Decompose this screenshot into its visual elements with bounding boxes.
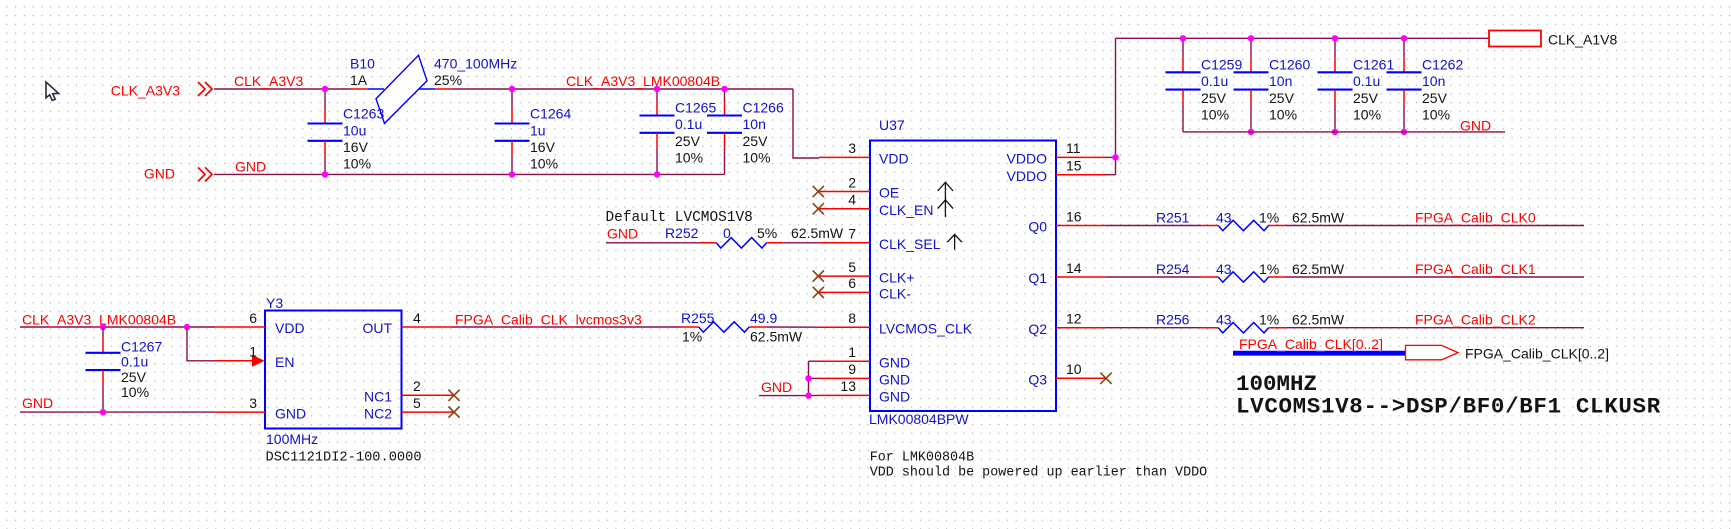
- svg-text:Y3: Y3: [266, 295, 283, 311]
- svg-text:4: 4: [848, 192, 856, 208]
- svg-text:0.1u: 0.1u: [121, 354, 148, 370]
- wire GND rail top-right: [1183, 131, 1505, 133]
- svg-text:GND: GND: [144, 166, 175, 182]
- svg-text:10u: 10u: [343, 122, 366, 138]
- svg-text:7: 7: [848, 226, 856, 242]
- mouse cursor: [46, 82, 59, 101]
- junction bottom rail: [1332, 129, 1338, 135]
- svg-text:10%: 10%: [121, 384, 149, 400]
- svg-text:25%: 25%: [434, 72, 462, 88]
- svg-text:CLK-: CLK-: [879, 286, 911, 302]
- power port CLK_A1V8: [1489, 31, 1541, 47]
- svg-text:FPGA_Calib_CLK0: FPGA_Calib_CLK0: [1415, 210, 1536, 226]
- svg-text:13: 13: [840, 378, 856, 394]
- op-amp U37 box: [870, 141, 1056, 412]
- wire FPGA_Calib_CLK1: [1286, 276, 1584, 278]
- wire R252 to pin7: [784, 242, 819, 244]
- svg-text:5: 5: [413, 395, 421, 411]
- svg-text:CLK_A3V3_LMK00804B: CLK_A3V3_LMK00804B: [566, 73, 720, 89]
- svg-text:Q1: Q1: [1028, 270, 1047, 286]
- no-connect X pin 4: [813, 203, 824, 214]
- svg-text:6: 6: [249, 310, 257, 326]
- U37 pin 13 stub: [819, 394, 870, 396]
- svg-text:3: 3: [848, 140, 856, 156]
- svg-text:C1264: C1264: [530, 106, 571, 122]
- capacitor C1262: [1403, 38, 1405, 57]
- capacitor C1263: [324, 89, 326, 109]
- svg-text:CLK+: CLK+: [879, 269, 914, 285]
- svg-text:25V: 25V: [121, 369, 147, 385]
- wire pin1 bend: [809, 360, 820, 362]
- svg-text:25V: 25V: [675, 133, 701, 149]
- svg-text:CLK_A3V3_LMK00804B: CLK_A3V3_LMK00804B: [22, 311, 176, 327]
- junction C1261 top: [1332, 35, 1338, 41]
- junction C1267 top: [100, 324, 106, 330]
- svg-text:CLK_SEL: CLK_SEL: [879, 236, 941, 252]
- svg-text:9: 9: [848, 361, 856, 377]
- capacitor C1266: [724, 89, 726, 101]
- svg-text:10n: 10n: [1269, 73, 1292, 89]
- svg-text:GND: GND: [1460, 118, 1491, 134]
- svg-text:62.5mW: 62.5mW: [791, 225, 844, 241]
- svg-text:0.1u: 0.1u: [675, 116, 702, 132]
- svg-text:FPGA_Calib_CLK2: FPGA_Calib_CLK2: [1415, 312, 1536, 328]
- U37 pin 4 stub: [819, 208, 870, 210]
- svg-text:CLK_A1V8: CLK_A1V8: [1548, 32, 1617, 48]
- svg-text:C1267: C1267: [121, 338, 162, 354]
- capacitor C1259: [1182, 38, 1184, 57]
- svg-text:43: 43: [1216, 261, 1232, 277]
- wire CLK_A1V8 top rail: [1116, 37, 1490, 39]
- svg-text:470_100MHz: 470_100MHz: [434, 56, 517, 72]
- svg-text:C1263: C1263: [343, 106, 384, 122]
- svg-text:R251: R251: [1156, 210, 1190, 226]
- resistor R256: [1201, 327, 1218, 329]
- wire VDDO vertical: [1115, 38, 1117, 174]
- wire CLK_A3V3 bead to corner: [453, 88, 794, 90]
- wire R255 to pin8: [766, 326, 819, 328]
- svg-text:16: 16: [1066, 208, 1082, 224]
- svg-text:1%: 1%: [682, 328, 702, 344]
- capacitor C1261: [1334, 38, 1336, 57]
- svg-text:GND: GND: [22, 395, 53, 411]
- svg-text:CLK_A3V3: CLK_A3V3: [234, 73, 303, 89]
- svg-text:GND: GND: [879, 389, 910, 405]
- svg-text:25V: 25V: [1422, 90, 1448, 106]
- U37 pin 16 stub: [1056, 225, 1106, 227]
- svg-text:5%: 5%: [757, 225, 777, 241]
- svg-text:C1266: C1266: [743, 99, 784, 115]
- U37 pin 10 stub: [1056, 377, 1106, 379]
- svg-text:15: 15: [1066, 158, 1082, 174]
- svg-text:OE: OE: [879, 185, 899, 201]
- svg-text:FPGA_Calib_CLK[0..2]: FPGA_Calib_CLK[0..2]: [1239, 336, 1383, 352]
- wire GND bottom-left: [20, 411, 215, 413]
- svg-text:FPGA_Calib_CLK_lvcmos3v3: FPGA_Calib_CLK_lvcmos3v3: [455, 311, 642, 327]
- U37 pin 12 stub: [1056, 327, 1106, 329]
- svg-text:C1260: C1260: [1269, 56, 1310, 72]
- svg-text:NC1: NC1: [364, 389, 392, 405]
- junction C1259 top: [1180, 35, 1186, 41]
- svg-text:10%: 10%: [1422, 107, 1450, 123]
- wire pin9 bend: [809, 377, 820, 379]
- svg-text:25V: 25V: [1269, 90, 1295, 106]
- svg-text:C1259: C1259: [1201, 56, 1242, 72]
- capacitor C1260: [1250, 38, 1252, 57]
- Y3 pin 4 stub: [402, 326, 452, 328]
- svg-text:10%: 10%: [675, 150, 703, 166]
- svg-text:1%: 1%: [1259, 312, 1279, 328]
- wire CLK_A3V3_LMK00804B left: [20, 326, 215, 328]
- resistor R251: [1201, 225, 1218, 227]
- capacitor C1267: [102, 327, 104, 338]
- no-connect X pin 6: [813, 287, 824, 298]
- U37 pin 15 stub: [1056, 174, 1106, 176]
- svg-text:GND: GND: [761, 379, 792, 395]
- U37 pin 2 stub: [819, 191, 870, 193]
- svg-text:14: 14: [1066, 260, 1082, 276]
- svg-text:Default LVCMOS1V8: Default LVCMOS1V8: [606, 210, 753, 226]
- port GND: [198, 167, 212, 181]
- svg-text:B10: B10: [350, 56, 375, 72]
- svg-text:2: 2: [413, 378, 421, 394]
- Y3 pin 5 stub: [402, 411, 455, 413]
- junction bottom rail: [1401, 129, 1407, 135]
- bus FPGA_Calib_CLK[0..2]: [1233, 351, 1406, 356]
- svg-text:R256: R256: [1156, 312, 1190, 328]
- wire GND into U37: [759, 395, 809, 397]
- svg-text:3: 3: [249, 395, 257, 411]
- svg-text:LVCOMS1V8-->DSP/BF0/BF1 CLKUSR: LVCOMS1V8-->DSP/BF0/BF1 CLKUSR: [1236, 393, 1661, 419]
- svg-text:1A: 1A: [350, 72, 368, 88]
- svg-text:0: 0: [723, 225, 731, 241]
- junction bottom rail: [1248, 129, 1254, 135]
- svg-text:VDD should be powered up earli: VDD should be powered up earlier than VD…: [870, 465, 1207, 480]
- svg-text:1: 1: [848, 344, 856, 360]
- U37 pin 9 stub: [819, 377, 870, 379]
- wire pin to R251: [1106, 225, 1201, 227]
- junction C1262 top: [1401, 35, 1407, 41]
- svg-text:16V: 16V: [530, 139, 556, 155]
- svg-text:GND: GND: [607, 225, 638, 241]
- svg-text:CLK_A3V3: CLK_A3V3: [111, 83, 180, 99]
- wire CLK_A3V3 from port to bead: [214, 88, 351, 90]
- port CLK_A3V3: [198, 82, 212, 96]
- no-connect X pin 5: [813, 271, 824, 282]
- svg-text:C1262: C1262: [1422, 56, 1463, 72]
- junction GND pin13: [805, 392, 811, 398]
- svg-text:GND: GND: [879, 354, 910, 370]
- svg-text:0.1u: 0.1u: [1201, 73, 1228, 89]
- wire pin13 bend: [809, 394, 820, 396]
- svg-text:100MHz: 100MHz: [266, 431, 318, 447]
- oscillator Y3 box: [265, 311, 402, 429]
- svg-text:C1261: C1261: [1353, 56, 1394, 72]
- bus port FPGA_Calib_CLK[0..2]: [1406, 345, 1459, 359]
- svg-text:10%: 10%: [1353, 107, 1381, 123]
- svg-text:FPGA_Calib_CLK[0..2]: FPGA_Calib_CLK[0..2]: [1465, 345, 1609, 361]
- capacitor C1264: [511, 89, 513, 109]
- U37 pin 11 stub: [1056, 156, 1106, 158]
- wire FPGA_Calib_CLK2: [1286, 327, 1584, 329]
- svg-text:43: 43: [1216, 210, 1232, 226]
- svg-text:DSC1121DI2-100.0000: DSC1121DI2-100.0000: [266, 451, 422, 466]
- U37 pin 5 stub: [819, 275, 870, 277]
- junction C1263 bottom: [322, 171, 328, 177]
- svg-text:62.5mW: 62.5mW: [1292, 210, 1345, 226]
- svg-text:Q0: Q0: [1028, 219, 1047, 235]
- junction C1264 top: [509, 86, 515, 92]
- svg-text:25V: 25V: [1353, 90, 1379, 106]
- junction C1260 top: [1248, 35, 1254, 41]
- wire pin11 to vertical: [1106, 156, 1116, 158]
- svg-text:Q2: Q2: [1028, 321, 1047, 337]
- svg-text:GND: GND: [235, 158, 266, 174]
- svg-text:CLK_EN: CLK_EN: [879, 202, 933, 218]
- junction C1266 top: [721, 86, 727, 92]
- U37 pin 1 stub: [819, 360, 870, 362]
- svg-text:For LMK00804B: For LMK00804B: [870, 450, 974, 465]
- svg-text:EN: EN: [275, 354, 294, 370]
- U37 pin 14 stub: [1056, 276, 1106, 278]
- junction EN branch: [184, 324, 190, 330]
- Y3 pin 6 stub: [215, 326, 265, 328]
- Y3 pin 3 stub: [215, 411, 265, 413]
- svg-text:NC2: NC2: [364, 405, 392, 421]
- svg-text:1u: 1u: [530, 122, 546, 138]
- wire pin15 to vertical: [1106, 174, 1116, 176]
- svg-text:1%: 1%: [1259, 261, 1279, 277]
- svg-text:1: 1: [249, 344, 257, 360]
- svg-text:OUT: OUT: [362, 320, 392, 336]
- junction GND pin9: [805, 375, 811, 381]
- U37 pin 7 stub: [819, 242, 870, 244]
- svg-text:6: 6: [848, 275, 856, 291]
- svg-text:R252: R252: [665, 225, 699, 241]
- U37 clock edge double arrow: [938, 182, 953, 217]
- junction C1267 bottom: [100, 409, 106, 415]
- svg-text:LVCMOS_CLK: LVCMOS_CLK: [879, 320, 973, 336]
- svg-text:U37: U37: [879, 117, 905, 133]
- no-connect X Y3 NC1: [448, 390, 459, 401]
- svg-text:5: 5: [848, 259, 856, 275]
- no-connect X pin 2: [813, 186, 824, 197]
- junction VDDO pin11: [1112, 154, 1118, 160]
- svg-text:GND: GND: [879, 372, 910, 388]
- no-connect X pin 10: [1100, 373, 1111, 384]
- U37 pin 8 stub: [819, 326, 870, 328]
- svg-text:Q3: Q3: [1028, 372, 1047, 388]
- no-connect X Y3 NC2: [448, 407, 459, 418]
- svg-text:VDD: VDD: [275, 320, 305, 336]
- svg-text:11: 11: [1066, 140, 1081, 156]
- Y3 pin 2 stub: [402, 394, 455, 396]
- wire GND rail bottom-left: [214, 173, 725, 175]
- junction C1265 bottom: [654, 171, 660, 177]
- svg-text:4: 4: [413, 310, 421, 326]
- svg-text:0.1u: 0.1u: [1353, 73, 1380, 89]
- svg-text:10%: 10%: [343, 156, 371, 172]
- svg-text:VDD: VDD: [879, 151, 909, 167]
- svg-text:10%: 10%: [743, 150, 771, 166]
- svg-text:25V: 25V: [1201, 90, 1227, 106]
- svg-text:49.9: 49.9: [750, 310, 777, 326]
- svg-text:10n: 10n: [1422, 73, 1445, 89]
- svg-text:2: 2: [848, 174, 856, 190]
- wire FPGA_Calib_CLK0: [1286, 225, 1584, 227]
- svg-text:10%: 10%: [530, 156, 558, 172]
- svg-text:10: 10: [1066, 361, 1082, 377]
- svg-text:R254: R254: [1156, 261, 1190, 277]
- svg-text:1%: 1%: [1259, 210, 1279, 226]
- resistor R254: [1201, 276, 1218, 278]
- resistor R255: [682, 326, 699, 328]
- svg-text:10%: 10%: [1269, 107, 1297, 123]
- svg-text:FPGA_Calib_CLK1: FPGA_Calib_CLK1: [1415, 261, 1536, 277]
- svg-text:VDDO: VDDO: [1007, 168, 1048, 184]
- ferrite bead B10 body: [376, 55, 427, 123]
- svg-text:25V: 25V: [743, 133, 769, 149]
- svg-text:43: 43: [1216, 312, 1232, 328]
- wire pin to R256: [1106, 327, 1201, 329]
- wire pin to R254: [1106, 276, 1201, 278]
- svg-text:62.5mW: 62.5mW: [750, 328, 803, 344]
- wire GND vertical at U37: [808, 361, 810, 395]
- U37 clock edge arrow CLK_SEL: [947, 235, 962, 250]
- svg-text:VDDO: VDDO: [1007, 151, 1048, 167]
- Y3 pin 1 stub with arrow: [215, 360, 253, 362]
- junction C1263 top: [322, 86, 328, 92]
- ferrite bead B10 leads: [351, 88, 368, 90]
- svg-text:16V: 16V: [343, 139, 369, 155]
- svg-text:10%: 10%: [1201, 107, 1229, 123]
- svg-text:62.5mW: 62.5mW: [1292, 261, 1345, 277]
- svg-text:8: 8: [848, 310, 856, 326]
- U37 pin 3 stub: [819, 156, 870, 158]
- svg-text:GND: GND: [275, 405, 306, 421]
- wire GND to R252: [606, 242, 699, 244]
- svg-text:R255: R255: [681, 310, 715, 326]
- svg-text:62.5mW: 62.5mW: [1292, 312, 1345, 328]
- svg-text:LMK00804BPW: LMK00804BPW: [869, 411, 969, 427]
- junction C1264 bottom: [509, 171, 515, 177]
- U37 pin 6 stub: [819, 291, 870, 293]
- svg-text:C1265: C1265: [675, 99, 716, 115]
- wire OUT to R255: [452, 326, 682, 328]
- resistor R252: [699, 242, 716, 244]
- capacitor C1265: [656, 89, 658, 101]
- wire corner down to pin3 row: [793, 89, 819, 158]
- junction C1265 top: [654, 86, 660, 92]
- svg-text:12: 12: [1066, 311, 1082, 327]
- wire EN branch: [187, 327, 215, 361]
- svg-text:10n: 10n: [743, 116, 766, 132]
